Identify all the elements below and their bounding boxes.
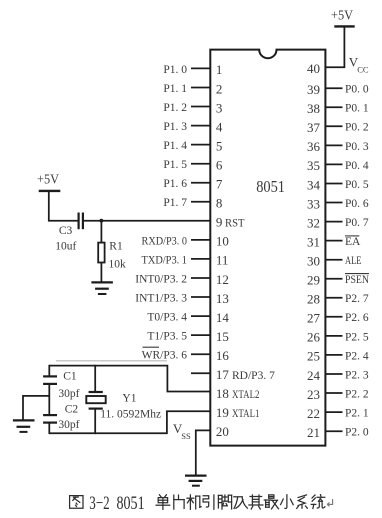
junction dot RST/R1: [100, 219, 104, 223]
svg-text:37: 37: [307, 120, 321, 135]
caption char TONG (统): [311, 495, 325, 509]
svg-text:P0. 7: P0. 7: [345, 217, 369, 229]
svg-text:P1. 4: P1. 4: [163, 140, 187, 152]
pin 15 stub: [191, 334, 210, 336]
svg-text:35: 35: [307, 158, 320, 173]
pin 7 stub: [191, 182, 210, 184]
pin 39 stub: [325, 87, 342, 89]
pin 31 stub: [325, 240, 342, 242]
svg-text:P2. 3: P2. 3: [345, 369, 369, 381]
pin 17 stub: [191, 372, 210, 374]
pin 24 stub: [325, 373, 342, 375]
wire VCC net: [325, 26, 344, 67]
pin 32 stub: [325, 221, 342, 223]
pin 28 stub: [325, 297, 342, 299]
svg-text:P0. 3: P0. 3: [345, 141, 369, 153]
svg-text:RST: RST: [225, 218, 245, 230]
capacitor C1: [48, 365, 50, 376]
svg-text:7: 7: [216, 177, 223, 192]
svg-text:RXD/P3. 0: RXD/P3. 0: [142, 235, 188, 247]
svg-text:INT1/P3. 3: INT1/P3. 3: [135, 292, 187, 304]
svg-text:20: 20: [216, 424, 229, 439]
svg-text:P1. 7: P1. 7: [163, 197, 187, 209]
svg-text:C2: C2: [65, 404, 79, 416]
svg-text:36: 36: [307, 139, 321, 154]
pin 4 stub: [191, 125, 210, 127]
svg-text:10k: 10k: [109, 259, 127, 271]
svg-text:P2. 6: P2. 6: [345, 312, 369, 324]
svg-text:EA: EA: [345, 236, 361, 248]
svg-text:4: 4: [216, 119, 223, 134]
pin 29 stub: [325, 278, 342, 280]
svg-text:31: 31: [307, 234, 320, 249]
caption char QI (其): [249, 495, 263, 509]
caption char TU (figure): [70, 496, 83, 509]
pin 2 stub: [191, 87, 210, 89]
svg-text:39: 39: [307, 82, 320, 97]
svg-text:40: 40: [307, 61, 320, 76]
svg-text:P0. 0: P0. 0: [345, 84, 369, 96]
svg-text:P1. 6: P1. 6: [163, 178, 187, 190]
svg-text:P2. 1: P2. 1: [345, 408, 369, 420]
svg-text:30: 30: [307, 254, 320, 269]
caption char XIAO (小): [281, 495, 294, 509]
IC U1 8051 body: [210, 50, 325, 446]
svg-text:17: 17: [216, 367, 230, 382]
pin 21 stub: [325, 430, 342, 432]
svg-text:38: 38: [307, 101, 320, 116]
svg-text:10uf: 10uf: [55, 241, 76, 253]
pin 1 stub: [191, 67, 210, 69]
pin 8 stub: [191, 201, 210, 203]
svg-text:15: 15: [216, 329, 229, 344]
pin 13 stub: [191, 296, 210, 298]
svg-text:T1/P3. 5: T1/P3. 5: [147, 331, 187, 343]
svg-text:P2. 5: P2. 5: [345, 331, 369, 343]
svg-text:1: 1: [216, 62, 223, 77]
svg-text:22: 22: [307, 406, 320, 421]
pin 3 stub: [191, 106, 210, 108]
svg-text:30pf: 30pf: [58, 419, 79, 431]
svg-text:14: 14: [216, 310, 230, 325]
wire XTAL2 net (top): [49, 366, 210, 392]
svg-text:8051: 8051: [117, 493, 145, 514]
svg-text:33: 33: [307, 196, 320, 211]
svg-text:5: 5: [216, 138, 223, 153]
crystal Y1: [94, 365, 96, 392]
ground at VSS pin 20: [185, 474, 207, 476]
svg-text:10: 10: [216, 234, 229, 249]
svg-text:11. 0592Mhz: 11. 0592Mhz: [100, 408, 161, 420]
pin 34 stub: [325, 183, 342, 185]
caption char ZUI (最): [264, 495, 278, 509]
caption char PIAN (片): [174, 495, 184, 509]
caption char JI (机): [187, 495, 201, 509]
pin 22 stub: [325, 411, 342, 413]
pin 25 stub: [325, 354, 342, 356]
pin 16 stub: [191, 353, 210, 355]
svg-text:XTAL2: XTAL2: [232, 389, 260, 401]
svg-text:24: 24: [307, 368, 321, 383]
svg-text:P0. 2: P0. 2: [345, 122, 369, 134]
wire RST net: [84, 220, 210, 222]
caption char DAN (单): [156, 495, 170, 510]
svg-text:P2. 2: P2. 2: [345, 388, 369, 400]
svg-text:WR/P3. 6: WR/P3. 6: [142, 350, 188, 362]
caption char XI (系): [297, 495, 308, 509]
pin 6 stub: [191, 163, 210, 165]
svg-text:16: 16: [216, 348, 230, 363]
ground below R1: [91, 281, 113, 283]
pin 36 stub: [325, 144, 342, 146]
svg-text:34: 34: [307, 177, 321, 192]
svg-text:13: 13: [216, 291, 229, 306]
svg-text:R1: R1: [109, 241, 123, 253]
overline EA: [345, 235, 359, 237]
svg-text:2: 2: [216, 81, 223, 96]
svg-text:8: 8: [216, 196, 223, 211]
svg-text:23: 23: [307, 387, 320, 402]
svg-text:9: 9: [216, 215, 223, 230]
svg-text:TXD/P3. 1: TXD/P3. 1: [142, 254, 188, 266]
svg-text:6: 6: [216, 158, 223, 173]
svg-text:P1. 1: P1. 1: [163, 83, 187, 95]
pin 27 stub: [325, 316, 342, 318]
svg-text:XTAL1: XTAL1: [232, 408, 260, 420]
caption char JIAO (脚): [218, 495, 231, 509]
svg-text:25: 25: [307, 349, 320, 364]
svg-text:21: 21: [307, 425, 320, 440]
pin 5 stub: [191, 144, 210, 146]
svg-text:P0. 1: P0. 1: [345, 103, 369, 115]
pin 30 stub: [325, 259, 342, 261]
svg-text:C1: C1: [63, 370, 77, 382]
svg-text:Y1: Y1: [122, 393, 136, 405]
caption char YIN (引): [203, 495, 214, 509]
svg-text:P1. 5: P1. 5: [163, 159, 187, 171]
svg-text:19: 19: [216, 405, 229, 420]
pin 23 stub: [325, 392, 342, 394]
svg-text:3: 3: [216, 100, 223, 115]
svg-text:CC: CC: [357, 65, 369, 75]
svg-text:32: 32: [307, 215, 320, 230]
svg-text:RD/P3. 7: RD/P3. 7: [232, 370, 275, 382]
svg-text:29: 29: [307, 273, 320, 288]
svg-text:30pf: 30pf: [58, 388, 79, 400]
resistor R1: [100, 221, 102, 243]
wire C1-C2: [48, 384, 50, 415]
svg-text:28: 28: [307, 292, 320, 307]
overline PSEN: [345, 273, 369, 275]
pin 37 stub: [325, 125, 342, 127]
ground at C1/C2 junction: [13, 419, 35, 421]
svg-text:C3: C3: [59, 225, 73, 237]
pin 33 stub: [325, 202, 342, 204]
caption char JI2 (及): [234, 497, 248, 509]
svg-text:11: 11: [216, 253, 229, 268]
svg-text:12: 12: [216, 272, 229, 287]
caption paragraph return mark: [327, 499, 332, 506]
svg-text:P1. 3: P1. 3: [163, 121, 187, 133]
svg-text:P0. 4: P0. 4: [345, 160, 369, 172]
capacitor C3: [77, 213, 79, 230]
pin 10 stub: [191, 239, 210, 241]
svg-text:SS: SS: [181, 431, 191, 441]
overline WR: [143, 346, 160, 348]
svg-text:P2. 4: P2. 4: [345, 350, 369, 362]
pin 38 stub: [325, 106, 342, 108]
wire +5V to C3: [49, 191, 78, 221]
svg-text:P2. 7: P2. 7: [345, 293, 369, 305]
wire to ground (C1/C2 junction): [23, 396, 49, 420]
svg-text:8051: 8051: [256, 177, 285, 196]
pin 11 stub: [191, 258, 210, 260]
svg-text:P1. 2: P1. 2: [163, 102, 187, 114]
svg-text:P0. 6: P0. 6: [345, 198, 369, 210]
capacitor C2: [43, 414, 57, 416]
svg-text:18: 18: [216, 386, 229, 401]
svg-text:P2. 0: P2. 0: [345, 427, 369, 439]
faint gray artifact line: [56, 360, 167, 362]
svg-text:27: 27: [307, 311, 321, 326]
pin 35 stub: [325, 163, 342, 165]
svg-text:ALE: ALE: [345, 255, 362, 267]
wire XTAL1 net (bottom): [49, 411, 210, 433]
svg-text:P0. 5: P0. 5: [345, 179, 369, 191]
svg-text:P1. 0: P1. 0: [163, 64, 187, 76]
pin 26 stub: [325, 335, 342, 337]
svg-text:3−2: 3−2: [89, 493, 109, 514]
svg-text:+5V: +5V: [37, 173, 59, 188]
wire VSS net: [196, 430, 211, 475]
pin 14 stub: [191, 315, 210, 317]
pin 12 stub: [191, 277, 210, 279]
svg-text:+5V: +5V: [331, 8, 353, 23]
svg-text:PSEN: PSEN: [345, 274, 370, 286]
svg-text:T0/P3. 4: T0/P3. 4: [147, 312, 187, 324]
svg-text:26: 26: [307, 330, 321, 345]
svg-text:INT0/P3. 2: INT0/P3. 2: [135, 273, 187, 285]
